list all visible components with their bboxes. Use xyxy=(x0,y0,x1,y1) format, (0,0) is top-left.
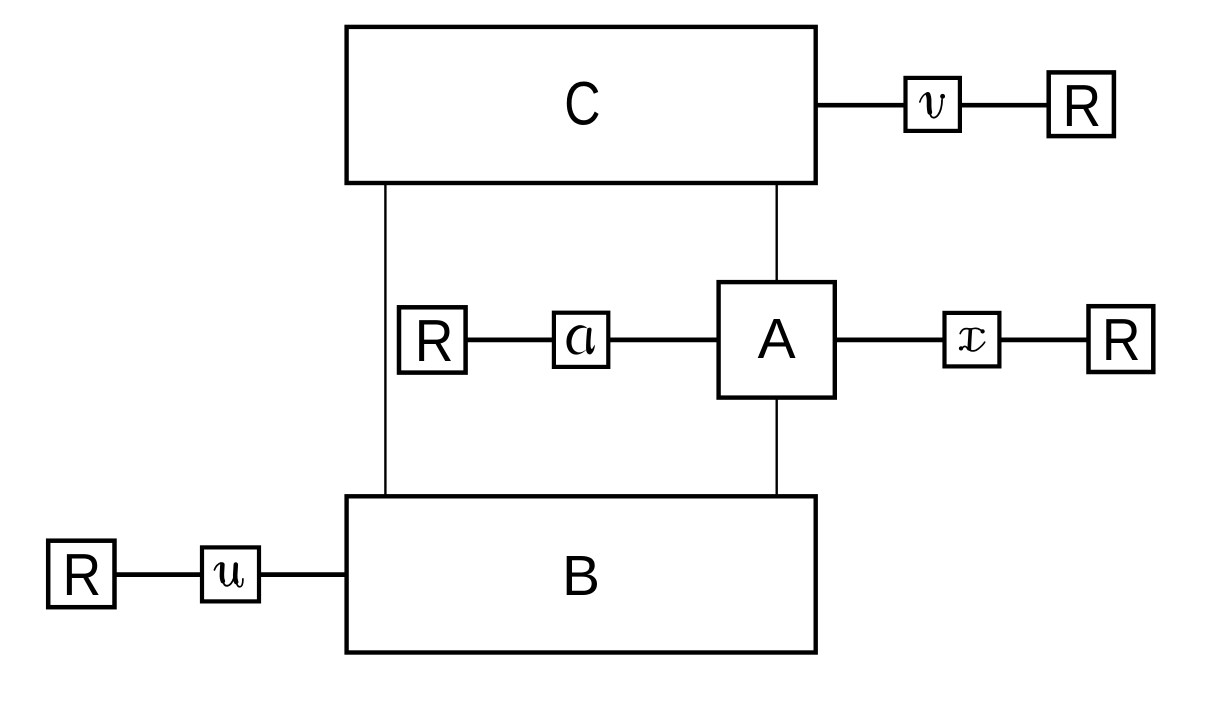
wire C bottom to B top (left vertical) xyxy=(384,183,386,496)
block A xyxy=(719,282,835,398)
block C xyxy=(347,27,816,183)
resistor R3 (top right) xyxy=(1049,72,1114,139)
svg-text:R: R xyxy=(1102,308,1141,374)
block B xyxy=(347,496,816,652)
wire node x to R (mid right) xyxy=(999,338,1088,343)
resistor R4 (bottom left) xyxy=(48,541,114,609)
wire node u to block B xyxy=(259,572,347,577)
svg-text:R: R xyxy=(62,542,101,608)
wire node v to R (top right) xyxy=(960,103,1049,108)
node a xyxy=(554,313,608,367)
svg-text:B: B xyxy=(562,544,600,608)
svg-text:R: R xyxy=(1062,73,1101,139)
resistor R1 (mid left) xyxy=(399,307,466,375)
wire C right to node v xyxy=(816,103,906,108)
wire R (mid left) to node a xyxy=(466,338,554,343)
node x xyxy=(945,313,1000,367)
node u xyxy=(202,547,259,601)
node v xyxy=(906,78,960,131)
wire A bottom to B top (right vertical) xyxy=(776,398,778,497)
resistor R2 (mid right) xyxy=(1089,306,1154,374)
wire node a to block A xyxy=(608,338,718,343)
wire R (bottom left) to node u xyxy=(115,572,203,577)
svg-text:R: R xyxy=(415,309,454,375)
svg-text:C: C xyxy=(564,69,600,138)
wire block A to node x xyxy=(835,338,945,343)
svg-text:A: A xyxy=(758,307,796,371)
wire C bottom to A top (right vertical) xyxy=(776,183,778,282)
